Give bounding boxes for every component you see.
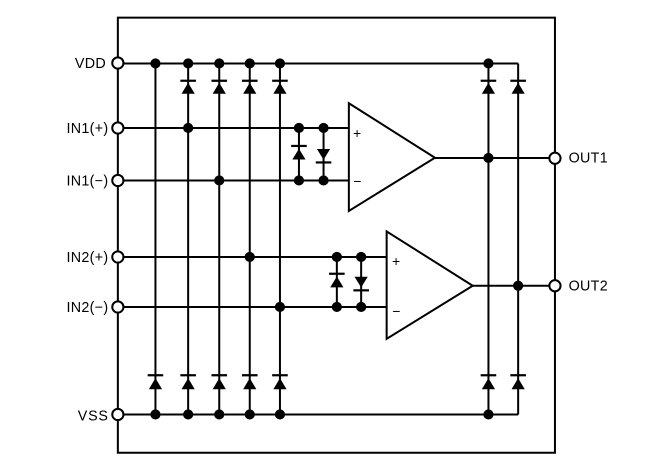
wire vertical clamp column 3: [218, 63, 220, 414]
pin IN1(+): [112, 122, 123, 133]
diode D12 (VSS to col6): [481, 375, 497, 389]
diode D11 (VSS to col5): [272, 375, 288, 389]
node VDD-col3: [214, 58, 224, 68]
pin OUT1: [549, 153, 560, 164]
wire diode pair 1 left leg: [298, 128, 300, 181]
node IN1- pair1 right: [318, 175, 328, 185]
pin IN1(-): [112, 175, 123, 186]
wire OUT1: [435, 157, 555, 159]
node VSS-col4: [245, 409, 255, 419]
wire IN1(+): [118, 127, 349, 129]
node VDD-col4: [245, 58, 255, 68]
svg-text:IN2(+): IN2(+): [67, 250, 109, 266]
svg-text:IN1(+): IN1(+): [67, 121, 109, 137]
svg-text:−: −: [392, 303, 400, 319]
node IN2- col5: [275, 302, 285, 312]
node VDD-col5: [275, 58, 285, 68]
node VSS-col6: [483, 409, 493, 419]
node VSS-col2: [183, 409, 193, 419]
IC package outline: [118, 18, 555, 453]
svg-text:+: +: [353, 125, 361, 141]
wire IN2(+): [118, 256, 387, 258]
node VSS-col1: [150, 409, 160, 419]
diode D15 (input pair 1, down): [316, 149, 332, 163]
diode D17 (input pair 2, down): [353, 277, 369, 291]
svg-text:OUT1: OUT1: [569, 151, 608, 167]
pin OUT2: [549, 280, 560, 291]
diode D6 (col7 to VDD): [510, 81, 526, 94]
diode D7 (VSS to col1): [148, 375, 164, 389]
svg-text:VDD: VDD: [75, 56, 106, 72]
node IN2+ pair2 right: [356, 252, 366, 262]
diode D2 (col3 to VDD): [211, 81, 227, 94]
wire IN1(-): [118, 179, 349, 181]
node IN1+ col2: [183, 123, 193, 133]
svg-text:IN2(−): IN2(−): [67, 300, 109, 316]
diode D1 (col2 to VDD): [180, 81, 196, 94]
diode D4 (col5 to VDD): [272, 81, 288, 94]
svg-text:VSS: VSS: [78, 408, 109, 424]
node IN1- pair1 left: [294, 175, 304, 185]
node OUT2-col7: [513, 281, 523, 291]
svg-text:OUT2: OUT2: [569, 279, 608, 295]
diode D16 (input pair 2, up): [329, 274, 345, 288]
pin IN2(-): [112, 301, 123, 312]
wire IN2(-): [118, 306, 387, 308]
pin IN2(+): [112, 251, 123, 262]
svg-text:IN1(−): IN1(−): [67, 174, 109, 190]
wire diode pair 1 right leg: [323, 128, 325, 181]
wire vertical clamp column 7 (OUT2): [517, 63, 519, 414]
node IN2+ pair2 left: [332, 252, 342, 262]
wire VDD rail: [118, 62, 518, 64]
wire vertical clamp column 6 (OUT1): [487, 63, 489, 414]
node VDD-col6: [483, 58, 493, 68]
diode D13 (VSS to col7): [510, 375, 526, 389]
node IN2- pair2 right: [356, 302, 366, 312]
svg-text:−: −: [353, 173, 361, 189]
node IN1+ pair1 right: [318, 123, 328, 133]
wire diode pair 2 left leg: [336, 257, 338, 307]
node IN2+ col4: [245, 252, 255, 262]
node OUT1-col6: [483, 153, 493, 163]
diode D10 (VSS to col4): [242, 375, 258, 389]
node IN1- col3: [214, 175, 224, 185]
wire VSS rail: [118, 413, 518, 415]
wire vertical clamp column 1: [154, 63, 156, 414]
wire vertical clamp column 5: [279, 63, 281, 414]
wire diode pair 2 right leg: [360, 257, 362, 307]
diode D14 (input pair 1, up): [291, 146, 307, 160]
wire OUT2: [473, 285, 555, 287]
svg-text:+: +: [392, 253, 400, 269]
diode D5 (col6 to VDD): [481, 81, 497, 94]
diode D8 (VSS to col2): [180, 375, 196, 389]
pin VSS: [112, 409, 123, 420]
pin VDD: [112, 57, 123, 68]
op-amp U2: [387, 231, 473, 338]
op-amp U1: [349, 103, 435, 211]
wire vertical clamp column 4: [249, 63, 251, 414]
diode D9 (VSS to col3): [211, 375, 227, 389]
node VSS-col3: [214, 409, 224, 419]
node IN2- pair2 left: [332, 302, 342, 312]
node IN1+ pair1 left: [294, 123, 304, 133]
node VDD-col2: [183, 58, 193, 68]
node VSS-col5: [275, 409, 285, 419]
wire vertical clamp column 2: [187, 63, 189, 414]
diode D3 (col4 to VDD): [242, 81, 258, 94]
node VDD-col1: [150, 58, 160, 68]
